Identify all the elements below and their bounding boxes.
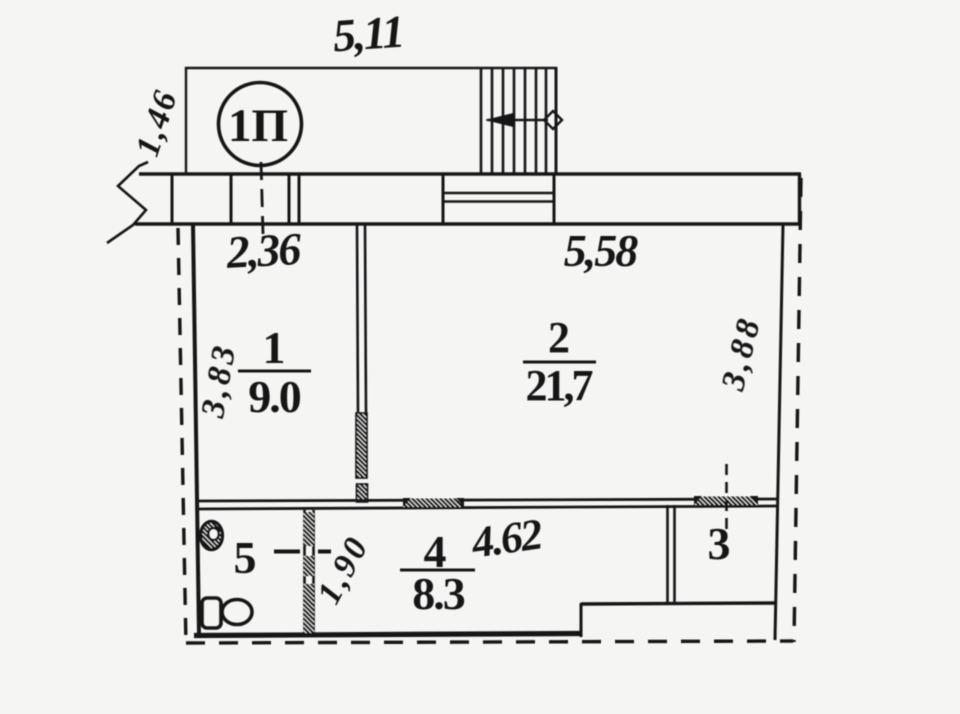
right exterior wall xyxy=(775,224,783,640)
step edge vertical xyxy=(580,603,583,637)
wall break mark (zigzag) xyxy=(107,162,148,243)
interior wall rooms 1|2 xyxy=(357,225,366,413)
sink in room 5 xyxy=(201,521,223,549)
svg-text:2: 2 xyxy=(548,313,570,362)
svg-text:4.62: 4.62 xyxy=(468,509,545,567)
svg-text:1: 1 xyxy=(263,322,286,373)
bottom exterior wall xyxy=(194,634,581,636)
interior horizontal wall (corridor) xyxy=(196,499,779,509)
svg-text:1П: 1П xyxy=(228,100,288,152)
dashed boundary bottom xyxy=(186,641,793,643)
svg-text:3,88: 3,88 xyxy=(714,312,768,395)
door lintel hatch 2 xyxy=(694,497,758,506)
stamp circle 1П xyxy=(219,83,302,166)
step edge horizontal (room 3 bottom) xyxy=(581,603,777,604)
door axis dashed (room 3) xyxy=(725,464,728,529)
svg-text:5,11: 5,11 xyxy=(331,6,404,62)
svg-text:21,7: 21,7 xyxy=(526,361,593,410)
dashed boundary left xyxy=(178,228,186,645)
wall band dividers xyxy=(172,174,554,224)
svg-text:8.3: 8.3 xyxy=(412,568,465,619)
svg-text:2,36: 2,36 xyxy=(224,223,302,278)
balcony outline top-left xyxy=(186,68,557,173)
interior wall rooms 4|3 xyxy=(668,505,675,605)
dashed boundary right xyxy=(794,178,801,642)
svg-text:9.0: 9.0 xyxy=(248,371,301,422)
toilet in room 5 xyxy=(202,598,221,628)
left exterior wall xyxy=(193,224,199,635)
svg-text:1,90: 1,90 xyxy=(310,530,376,611)
interior wall rooms 5|4 xyxy=(305,510,314,635)
svg-text:5,58: 5,58 xyxy=(564,225,639,276)
exterior top wall band xyxy=(135,174,801,224)
svg-text:5: 5 xyxy=(234,532,257,583)
axis dash-dot line below stamp xyxy=(261,162,263,234)
stair direction arrow xyxy=(485,111,562,129)
svg-text:3,83: 3,83 xyxy=(194,340,244,422)
svg-text:1,46: 1,46 xyxy=(129,85,185,161)
stair landing lines xyxy=(443,193,554,202)
door lintel hatch 1 xyxy=(403,499,464,508)
stairs xyxy=(481,67,556,173)
